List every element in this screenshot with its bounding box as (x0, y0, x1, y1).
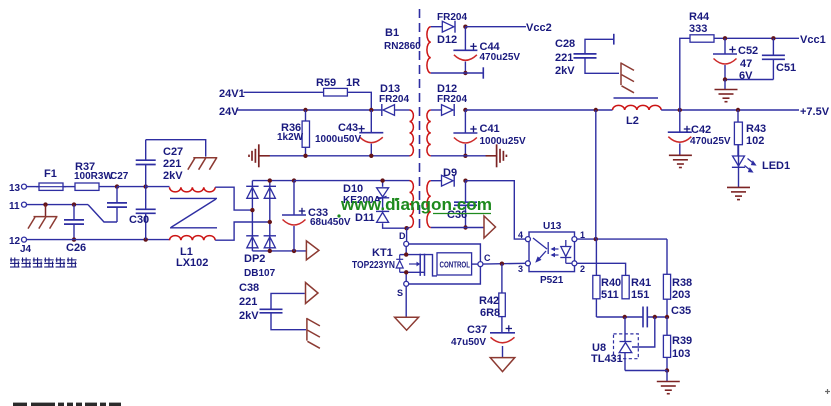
svg-text:102: 102 (746, 135, 764, 147)
op-amp U-KT1 outer box (409, 244, 481, 284)
small plus bottom-right (825, 389, 830, 394)
inductor L1 core Z symbol (170, 198, 217, 269)
node divider ref (653, 315, 657, 319)
svg-text:R41: R41 (631, 277, 651, 289)
pin S of KT1 (397, 281, 409, 298)
label 24V (219, 106, 239, 118)
bridge DP2 bottom rail (252, 250, 306, 252)
svg-text:103: 103 (672, 348, 690, 360)
node junction 11-line C26 (72, 202, 76, 206)
wire C28 top to stub (585, 39, 613, 54)
svg-text:3: 3 (518, 264, 523, 274)
node B junction 13-line at C27b (144, 184, 148, 188)
capacitor C52 47u 6V (713, 38, 758, 82)
transformer B1 primary winding top (410, 110, 414, 156)
wire winding to D9 (431, 180, 442, 182)
svg-text:KT1: KT1 (372, 247, 393, 259)
capacitor C43 1000u50V (315, 110, 383, 156)
svg-text:J4: J4 (20, 244, 32, 255)
svg-text:R40: R40 (601, 277, 621, 289)
svg-text:11: 11 (9, 201, 20, 212)
svg-text:D: D (399, 231, 406, 241)
capacitor C41 1000u25V (453, 110, 526, 156)
chassis ground at C38 (307, 318, 320, 348)
diode D12 FR204 top (437, 12, 467, 46)
caption fragment bottom-left (13, 403, 121, 406)
svg-text:R42: R42 (479, 295, 499, 307)
wire F1 to R37 (63, 186, 75, 188)
node anode R39 (665, 368, 669, 372)
capacitor C27a (label C27 beside R37) (107, 171, 129, 222)
node C52 bottom (723, 77, 727, 81)
transformer B1 secondary winding 7.5V (427, 110, 431, 156)
svg-text:LX102: LX102 (176, 257, 208, 269)
node junction 12-line C30 (144, 237, 148, 241)
node rail D10 (380, 178, 384, 182)
wire node B to L1 top (146, 186, 170, 188)
svg-text:R39: R39 (672, 335, 692, 347)
svg-text:DB107: DB107 (244, 268, 276, 279)
node divider R38 (665, 315, 669, 319)
TL431 symbol (619, 317, 632, 371)
svg-text:2: 2 (580, 264, 585, 274)
wire C28 bottom to chassis (585, 58, 619, 73)
svg-text:www.diangon.com: www.diangon.com (340, 195, 492, 214)
capacitor C36 (447, 181, 477, 228)
ground earth at LED1 (727, 187, 750, 199)
light arrows inside U13 (551, 247, 559, 257)
label KT1 (352, 247, 395, 271)
label J4 chinese caption (10, 258, 77, 268)
capacitor C51 (762, 38, 796, 79)
node Vcc1 C51 (771, 36, 775, 40)
wire C27 top to chassis (146, 140, 206, 157)
wire R59 to 24V line (347, 92, 371, 110)
primary return triangle at source (395, 317, 419, 330)
shunt regulator U8 TL431 box (591, 334, 638, 365)
LED LED1 (732, 145, 790, 173)
wire S to primary return (405, 286, 407, 317)
svg-text:100R3W: 100R3W (74, 171, 113, 182)
resistor R37 (74, 161, 113, 190)
chassis ground at terminal 11 (28, 205, 58, 229)
svg-text:F1: F1 (44, 168, 57, 180)
svg-text:D12: D12 (437, 34, 457, 46)
svg-text:FR204: FR204 (437, 94, 467, 105)
wire pin3 to C pin (483, 262, 526, 265)
wire D12 to Vcc2 (465, 26, 526, 28)
wire 13 to F1 (27, 186, 39, 188)
wire bias return (431, 227, 484, 229)
svg-text:Vcc1: Vcc1 (800, 34, 826, 46)
svg-text:R38: R38 (672, 277, 692, 289)
node pin1 feedback (594, 237, 598, 241)
transformer B1 core (384, 9, 421, 232)
svg-text:4: 4 (518, 230, 523, 240)
wire TL431 ref (632, 317, 655, 347)
node bridge bottom right-rail (268, 249, 272, 253)
svg-text:151: 151 (631, 289, 649, 301)
label +7.5V (800, 106, 830, 118)
wire R38 column vertical (666, 239, 668, 274)
wire C38 top to triangle (271, 293, 305, 309)
svg-text:TOP223YN: TOP223YN (352, 260, 395, 271)
pin 4 of U13 (518, 230, 530, 242)
wire node A to node B (117, 186, 146, 188)
wire C38 bottom to chassis (271, 313, 306, 330)
wire winding to D12 (431, 26, 443, 28)
pin 2 of U13 (572, 261, 585, 274)
wire rail to R44 (680, 38, 690, 110)
pin 1 of U13 (572, 230, 585, 242)
node junction 11-line chassis (43, 202, 47, 206)
capacitor C27 221 2kV (136, 140, 184, 187)
node Vcc1 C52 (723, 36, 727, 40)
LED inside U13 (533, 238, 548, 263)
svg-text:221: 221 (555, 52, 573, 64)
node bridge top right-rail (268, 178, 272, 182)
label Vcc1 (800, 34, 826, 46)
svg-text:C42: C42 (691, 124, 711, 136)
wire LED1 to earth (738, 167, 740, 187)
svg-text:203: 203 (672, 289, 690, 301)
svg-text:CONTROL: CONTROL (440, 261, 471, 270)
svg-text:2kV: 2kV (555, 65, 575, 77)
svg-text:C37: C37 (467, 324, 487, 336)
svg-text:C38: C38 (239, 282, 259, 294)
wire D10 to D11 (382, 198, 384, 210)
wire C41 bottom line (431, 155, 497, 157)
resistor R44 333 (689, 11, 714, 42)
svg-text:511: 511 (601, 289, 619, 301)
wire drain node to KT1 D pin (406, 228, 408, 241)
wire C35 to R38 node (647, 316, 667, 318)
node A junction 13-line at C27a (115, 184, 119, 188)
wire R44 to Vcc1 (714, 37, 799, 39)
control block of KT1 (437, 253, 478, 275)
wire winding to D12b (431, 109, 442, 111)
wire bridge top to winding (294, 180, 410, 182)
svg-text:47u50V: 47u50V (451, 337, 486, 348)
diode D13 FR204 (379, 83, 409, 116)
node pin3 R42 (500, 262, 504, 266)
wire feedback vertical (595, 110, 597, 239)
wire C52 to earth (724, 80, 726, 90)
svg-text:24V1: 24V1 (219, 88, 245, 100)
wire C51 bottom to C52 (725, 79, 773, 81)
wire R40 bottom to divider line (596, 299, 643, 317)
svg-text:FR204: FR204 (437, 12, 467, 23)
pin 3 of U13 (518, 261, 530, 274)
node C36 bottom (463, 225, 467, 229)
svg-text:Vcc2: Vcc2 (526, 22, 552, 34)
wire 11-line (27, 204, 88, 206)
node rail R43 (736, 108, 740, 112)
inductor L1 bottom winding (170, 236, 216, 241)
svg-text:D10: D10 (343, 183, 363, 195)
label Vcc2 (526, 22, 552, 34)
node gnd R36 (303, 154, 307, 158)
svg-text:1000u50V: 1000u50V (315, 134, 361, 145)
terminal 13 of connector J4 (9, 183, 27, 194)
svg-text:221: 221 (239, 296, 257, 308)
capacitor C33 68u450V (282, 181, 351, 251)
svg-text:333: 333 (689, 23, 707, 35)
svg-text:LED1: LED1 (762, 160, 790, 172)
capacitor C44 470u25V (453, 27, 520, 73)
inductor L2 (613, 98, 662, 127)
pin C of KT1 (478, 253, 491, 267)
node C41 bottom (463, 154, 467, 158)
resistor R42 6R8 (479, 264, 505, 333)
op-amp U13 P521 box (529, 221, 575, 286)
resistor R43 102 (734, 110, 766, 156)
svg-text:C43: C43 (338, 122, 358, 134)
wire R39 to anode line (666, 357, 668, 370)
diode D11 (355, 211, 389, 224)
svg-text:B1: B1 (385, 27, 399, 39)
resistor R39 103 (663, 317, 692, 360)
node bridge top C33 (292, 178, 296, 182)
svg-text:6R8: 6R8 (480, 307, 500, 319)
wire 24V1 to R59 (244, 91, 324, 93)
resistor R41 151 (622, 275, 651, 301)
svg-text:C28: C28 (555, 38, 575, 50)
terminal 11 of connector J4 (9, 201, 27, 212)
node divider R41 (623, 315, 627, 319)
wire D11 to drain node (383, 223, 407, 228)
diode DP2-1 top-left (246, 186, 258, 198)
wire C37 to triangle (502, 346, 504, 358)
primary return triangle at DP2 (306, 241, 319, 260)
svg-text:R43: R43 (746, 123, 766, 135)
terminal 12 of connector J4 (9, 236, 32, 255)
wire R38 to node (666, 299, 668, 317)
resistor R36 1k2W (277, 110, 310, 156)
terminal stub bar Vcc2 return (482, 67, 484, 78)
svg-text:221: 221 (163, 158, 181, 170)
resistor R40 511 (593, 239, 621, 301)
wire L1 top to bridge (215, 187, 252, 210)
svg-text:C52: C52 (738, 45, 758, 57)
node rail L2 junction (594, 108, 598, 112)
diode DP2-2 top-right (264, 186, 276, 198)
svg-text:P521: P521 (540, 275, 564, 286)
wire pin2 to R41 (577, 263, 626, 275)
terminal stub bar C28 (613, 34, 615, 45)
diode D12 FR204 middle (437, 83, 467, 116)
svg-text:13: 13 (9, 183, 21, 194)
transformer B1 bias winding (427, 181, 431, 228)
node D12b C41 (463, 108, 467, 112)
svg-text:R59: R59 (316, 77, 336, 89)
wire 24V line (237, 109, 382, 111)
wire D12b to L2 (465, 109, 612, 111)
node junction C26 12-line (72, 237, 76, 241)
svg-text:U13: U13 (543, 221, 562, 232)
svg-text:1R: 1R (346, 77, 360, 89)
label 24V1 (219, 88, 245, 100)
label DP2 (244, 253, 276, 279)
transformer B1 primary winding bottom (410, 181, 414, 228)
node 24V R36 (303, 108, 307, 112)
svg-text:L2: L2 (626, 115, 639, 127)
transformer B1 secondary winding Vcc2 (427, 27, 431, 73)
node bridge ac1 (250, 208, 254, 212)
svg-text:TL431: TL431 (591, 353, 623, 365)
transistor KT1 internal mosfet (396, 246, 437, 281)
svg-text:470u25V: 470u25V (690, 136, 731, 147)
resistor R59 1R (316, 77, 360, 96)
svg-text:1k2W: 1k2W (277, 132, 304, 143)
capacitor C37 47u50V (451, 324, 515, 348)
wire L2 to rail end (661, 109, 799, 111)
secondary bias triangle at C36 (484, 216, 496, 238)
signal ground right (486, 144, 507, 167)
svg-text:DP2: DP2 (244, 253, 265, 265)
svg-text:2kV: 2kV (239, 310, 259, 322)
node 24V C43 (369, 108, 373, 112)
resistor R38 203 (663, 274, 692, 301)
capacitor C30 (129, 187, 156, 240)
svg-text:D9: D9 (443, 167, 457, 179)
pin D of KT1 (399, 231, 409, 246)
svg-text:C27: C27 (110, 171, 129, 182)
svg-text:S: S (397, 288, 403, 298)
svg-text:1000u25V: 1000u25V (480, 136, 526, 147)
svg-text:C35: C35 (671, 305, 691, 317)
node bridge ac2 (268, 220, 272, 224)
wire winding bottom to drain node (407, 227, 410, 230)
watermark diangon (340, 195, 492, 214)
svg-text:C51: C51 (776, 62, 796, 74)
capacitor C38 221 2kV (239, 282, 283, 322)
chassis ground at C28 (621, 62, 634, 92)
wire L1 bottom to bridge (215, 222, 270, 240)
chassis ground at C27 (188, 158, 218, 170)
diode D10 KE200A TVS (343, 183, 389, 206)
wire 12-line (27, 239, 170, 241)
phototransistor inside U13 (560, 240, 572, 263)
primary ground line (259, 155, 410, 157)
svg-text:RN2860: RN2860 (384, 41, 421, 52)
node D9 C36 (463, 179, 467, 183)
secondary return triangle at C37 (490, 358, 515, 372)
svg-text:C30: C30 (129, 214, 149, 226)
svg-text:C41: C41 (480, 123, 500, 135)
svg-text:470u25V: 470u25V (480, 52, 521, 63)
primary return triangle at C38 (306, 283, 319, 304)
node drain junction (404, 226, 408, 230)
svg-text:68u450V: 68u450V (310, 217, 351, 228)
node gnd C43 (369, 154, 373, 158)
svg-text:12: 12 (9, 236, 21, 247)
wire Vcc2 winding return (431, 72, 484, 74)
watermark dots (337, 198, 398, 218)
wire pin1 to R38 column (577, 238, 667, 240)
ground earth at TL431 (657, 382, 680, 394)
node D12 C44 (463, 25, 467, 29)
diode DP2-4 bottom-right (264, 236, 276, 248)
capacitor C42 470u25V (668, 110, 731, 155)
ground earth at C52 (715, 90, 738, 102)
bridge DP2 top rail (252, 180, 294, 182)
svg-text:C27: C27 (163, 146, 183, 158)
svg-text:24V: 24V (219, 106, 239, 118)
inductor L1 top winding (170, 187, 216, 192)
wire anode to earth (666, 371, 668, 382)
wire R37 to node C27a (99, 186, 117, 188)
diode D9 (442, 167, 458, 187)
node C44 bottom (463, 71, 467, 75)
svg-text:FR204: FR204 (379, 94, 409, 105)
wire rail to D10 (382, 181, 384, 187)
svg-text:C: C (484, 253, 491, 263)
wire TL431 anode line (625, 370, 667, 372)
node rail C42 (678, 108, 682, 112)
wire C27a bottom to 11-line diagonal (88, 205, 117, 222)
capacitor C28 221 2kV (555, 38, 597, 77)
svg-text:C26: C26 (66, 242, 86, 254)
svg-text:R44: R44 (689, 11, 710, 23)
bridge DP2 right rail (269, 181, 271, 251)
capacitor C26 (64, 205, 86, 254)
svg-text:2kV: 2kV (163, 170, 183, 182)
svg-text:47: 47 (740, 58, 752, 70)
node bridge bottom C33 (292, 249, 296, 253)
bridge DP2 left rail (251, 181, 253, 251)
wire D9 to U13 pin4 (466, 181, 526, 239)
diode DP2-3 bottom-left (246, 236, 258, 248)
wire D13 to primary winding (395, 109, 410, 111)
ground earth at C42 (669, 155, 692, 167)
fuse F1 (36, 168, 66, 190)
svg-text:+7.5V: +7.5V (800, 106, 830, 118)
capacitor C35 (643, 305, 691, 327)
signal ground left (249, 144, 270, 167)
